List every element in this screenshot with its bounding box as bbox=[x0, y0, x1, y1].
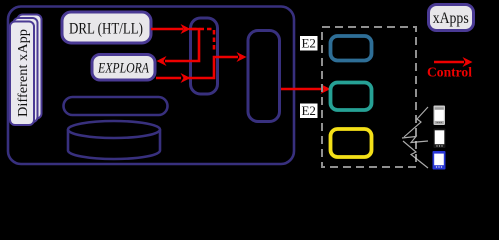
svg-text:xApps: xApps bbox=[433, 10, 469, 27]
svg-text:Different xApp: Different xApp bbox=[16, 29, 31, 117]
svg-text:EXPLORA: EXPLORA bbox=[97, 61, 149, 77]
svg-text:E2: E2 bbox=[301, 103, 315, 118]
svg-text:DRL (HT/LL): DRL (HT/LL) bbox=[69, 21, 143, 38]
svg-text:E2: E2 bbox=[301, 36, 315, 51]
svg-text:Control: Control bbox=[427, 65, 472, 80]
